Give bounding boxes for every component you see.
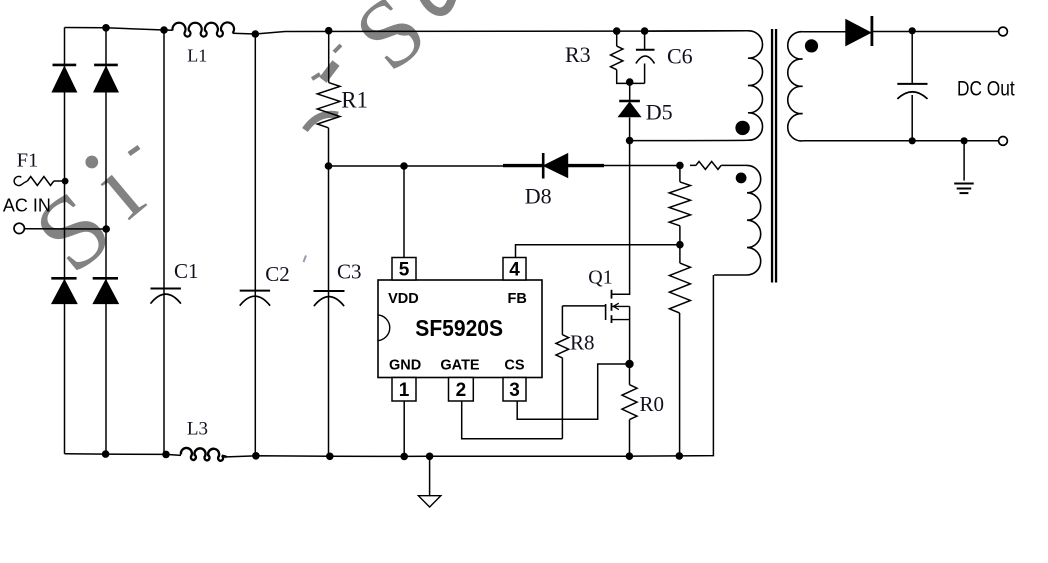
svg-text:Q1: Q1 [588, 266, 612, 288]
svg-text:GATE: GATE [440, 357, 480, 373]
svg-text:1: 1 [399, 380, 410, 401]
svg-text:2: 2 [456, 380, 467, 401]
svg-text:AC IN: AC IN [3, 195, 51, 215]
svg-text:D5: D5 [646, 99, 673, 124]
svg-text:DC Out: DC Out [957, 77, 1015, 101]
svg-text:4: 4 [509, 259, 520, 280]
svg-text:R3: R3 [565, 42, 591, 67]
svg-text:C2: C2 [265, 262, 290, 286]
svg-text:GND: GND [389, 357, 421, 373]
svg-text:D8: D8 [525, 183, 552, 208]
svg-text:C6: C6 [667, 44, 693, 69]
svg-text:R1: R1 [341, 87, 368, 112]
svg-text:CS: CS [504, 357, 524, 373]
svg-text:C1: C1 [174, 259, 199, 283]
svg-text:L3: L3 [187, 418, 208, 439]
svg-text:3: 3 [509, 380, 520, 401]
svg-text:FB: FB [508, 291, 527, 307]
svg-text:SF5920S: SF5920S [415, 315, 503, 341]
svg-text:F1: F1 [17, 149, 39, 171]
svg-text:5: 5 [399, 259, 410, 280]
svg-text:R0: R0 [640, 392, 665, 416]
svg-text:L1: L1 [187, 45, 207, 65]
svg-text:R8: R8 [570, 331, 595, 355]
svg-text:C3: C3 [337, 260, 362, 284]
svg-text:VDD: VDD [388, 291, 419, 307]
